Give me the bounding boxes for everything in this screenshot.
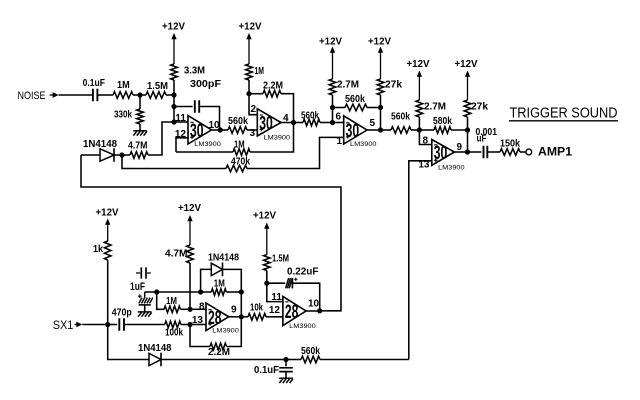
node K junction [378,105,383,110]
wire node C to node D [173,107,175,123]
svg-text:580k: 580k [433,116,452,127]
svg-text:12: 12 [269,305,281,316]
op-amp U6 LM3900 (28) [283,297,316,330]
svg-text:560k: 560k [301,346,320,357]
svg-text:+12V: +12V [239,22,262,33]
node T2 junction [239,289,244,294]
node N junction [465,127,470,132]
svg-text:+12V: +12V [368,37,391,48]
node I junction (pin 6) [330,120,335,125]
node T junction [198,289,203,294]
node S junction [154,289,159,294]
pin 10 label (U6) [308,299,320,310]
wire U4 pin 13 down to bottom rail [409,161,432,360]
svg-text:6: 6 [335,112,341,123]
svg-text:uF: uF [477,134,487,145]
resistor R 2.7M from +12V (right) [416,100,446,130]
node R (U6 output) [317,308,322,313]
svg-text:LM3900: LM3900 [212,327,239,334]
pin 5 label [370,118,376,129]
node G (U2 output) [291,120,296,125]
node C junction [171,104,176,109]
wire 470k to U3 pin 1 [247,137,344,168]
power +12V (2.7M right) [407,59,430,100]
svg-text:8: 8 [199,301,205,312]
pin 11 label (U6) [271,292,282,303]
wire node U down to 2.2M [190,325,210,347]
resistor R 10k [241,302,283,320]
wire node K to node L [380,108,382,131]
wire node M to pin 8 [419,130,431,145]
svg-text:0.22uF: 0.22uF [287,266,318,277]
svg-text:1k: 1k [93,244,103,255]
svg-text:150k: 150k [500,138,520,149]
diode D2 1N4148 (parallel 1M) [201,252,242,292]
wire node U to pin 13 [190,324,206,326]
wire node V down to diode D3 [108,325,149,360]
svg-text:+12V: +12V [319,37,342,48]
wire 2.2M to U5 output [227,317,242,347]
svg-text:11: 11 [175,113,186,124]
svg-text:LM3900: LM3900 [438,164,465,171]
node D junction (pin 11) [171,119,176,124]
pin 4 label [283,113,289,124]
resistor R 3.3M from +12V [171,64,205,95]
title TRIGGER SOUND [509,105,618,122]
wire U6 output [306,310,320,312]
svg-text:3: 3 [249,128,255,139]
wire node S down to 1M [157,292,164,309]
resistor R 560k (U3 feedback) [333,94,381,111]
svg-text:+12V: +12V [96,208,119,219]
wire 1M feedback to node G [250,123,294,153]
resistor R 2.2M (U2 feedback) [249,81,294,123]
capacitor C 1uF (polarized to ground) [130,281,157,312]
resistor R 580k (node M to node N) [419,116,467,134]
resistor R 27k from +12V [377,79,402,108]
pin 10 label [209,120,221,131]
resistor R 330k to ground [114,95,143,131]
power +12V (1k) [96,208,119,242]
resistor R 1M (noise input) [105,80,140,98]
wire node H to pin 2 [249,94,257,115]
input arrow SX1 [75,322,83,328]
svg-text:560k: 560k [301,110,319,121]
svg-text:3.3M: 3.3M [184,66,205,77]
svg-text:LM3900: LM3900 [194,141,221,148]
svg-text:1M: 1M [117,80,130,91]
svg-text:9: 9 [231,305,237,316]
op-amp U2 LM3900 (30) [257,109,290,142]
op-amp U1 LM3900 (30) [188,116,221,148]
capacitor C 0.1uF (bottom to ground) [254,360,293,378]
power +12V (4.7M lower) [178,203,201,245]
wire pin 12 to 1M feedback [176,151,233,153]
svg-text:300pF: 300pF [190,79,221,90]
pin 8 label (U5) [199,301,205,312]
svg-text:0.1uF: 0.1uF [83,78,105,89]
ground (1uF) [138,312,152,317]
power +12V (27k left) [368,37,391,80]
node SX1 (input label) [53,318,74,332]
power +12V (1.5M lower) [253,211,276,255]
wire pin 12 stub down [176,138,188,152]
svg-text:100k: 100k [165,327,183,338]
node H junction [246,91,251,96]
resistor R 4.7M from +12V (lower) [165,245,193,309]
diode D3 1N4148 (bottom) [138,343,286,366]
capacitor C1 0.1uF [59,78,105,101]
pin 13 label (U5) [192,315,204,326]
capacitor C 0.22uF (U6 feedback) [267,266,320,311]
node NOISE (input label) [18,90,46,102]
svg-text:1.5M: 1.5M [272,254,289,265]
svg-text:560k: 560k [391,111,410,122]
svg-text:0.1uF: 0.1uF [254,365,279,376]
node AMP1 (output label) [538,145,572,159]
resistor R 4.7M (from diode) [122,141,148,159]
resistor R 1k from +12V [93,241,111,325]
node A junction [137,92,142,97]
op-amp U5 LM3900 (28) [206,303,239,334]
wire U3 output [367,129,381,131]
svg-text:+12V: +12V [407,59,430,70]
wire node I to pin 6 [333,122,344,124]
wire U4 output [454,151,467,153]
resistor R 2.7M from +12V [329,79,359,108]
resistor R 560k (U2 out to node I) [294,110,333,126]
svg-text:+12V: +12V [253,211,276,222]
svg-text:2.7M: 2.7M [424,102,446,113]
svg-text:28: 28 [285,302,299,323]
node Q junction [264,281,269,286]
node M junction [417,127,422,132]
power +12V (2.7M left) [319,37,342,80]
pin 6 label [335,112,341,123]
op-amp U3 LM3900 (30) [344,116,377,148]
svg-text:2.7M: 2.7M [337,80,359,91]
resistor R 1M (to pin 8) [164,296,190,313]
capacitor C 0.001uF [468,127,501,158]
wire node F down to 470k [122,155,226,169]
wire pin 11 stub [174,121,188,123]
pin 1 label [336,136,342,147]
svg-text:LM3900: LM3900 [350,141,377,148]
svg-text:5: 5 [370,118,376,129]
resistor R 560k (bottom) [286,346,409,363]
node J junction [330,105,335,110]
svg-text:AMP1: AMP1 [538,145,572,159]
node L (U3 output) [378,127,383,132]
svg-text:1N4148: 1N4148 [138,343,172,354]
svg-text:2.2M: 2.2M [263,81,283,92]
svg-text:1M: 1M [255,66,265,77]
svg-text:SX1: SX1 [53,318,74,332]
pin 9 label [457,142,463,153]
wire D1 anode loop from U6 output [81,155,341,311]
input arrow NOISE [50,92,59,98]
svg-text:1M: 1M [234,139,245,150]
svg-text:13: 13 [192,315,204,326]
resistor R 560k (U3 out to node M) [381,111,420,133]
svg-text:8: 8 [422,135,428,146]
node U junction (pin 13) [187,322,192,327]
wire node B to node C [173,95,175,107]
svg-text:27k: 27k [385,80,402,91]
power +12V (1M) [239,22,262,65]
wire pin 11 to node Q [267,283,283,301]
pin 9 label (U5) [231,305,237,316]
diode D1 1N4148 [81,139,122,162]
resistor R 470k (feedback to pin 1) [226,156,250,172]
node P (U5 output) [239,314,244,319]
resistor R 27k from +12V (right) [464,100,488,130]
resistor R 100k [124,321,190,338]
svg-text:560k: 560k [345,94,365,105]
node V junction [105,322,110,327]
capacitor C 470p [108,307,132,330]
pin 3 label [249,128,255,139]
svg-text:10: 10 [308,299,320,310]
svg-text:+12V: +12V [162,22,185,33]
node O (U4 output) [465,149,470,154]
svg-text:2.2M: 2.2M [208,347,230,358]
wire node T to node S [157,291,201,293]
svg-text:TRIGGER SOUND: TRIGGER SOUND [510,105,618,122]
svg-text:27k: 27k [471,102,488,113]
wire node U2d to pin 8 [190,308,206,310]
resistor R 1M from +12V [246,64,264,94]
svg-text:LM3900: LM3900 [289,323,316,330]
wire node I up to node J [332,108,334,123]
svg-text:30: 30 [346,121,360,142]
capacitor symbol (unconnected, above 1uF) [136,267,151,278]
svg-text:330k: 330k [114,110,132,121]
power +12V (3.3M) [162,22,185,65]
pin 12 label [175,129,187,140]
svg-text:10k: 10k [250,302,263,313]
svg-text:470k: 470k [231,156,250,167]
svg-text:1M: 1M [214,278,225,289]
svg-text:1: 1 [336,136,342,147]
node B junction [171,92,176,97]
svg-text:1uF: 1uF [130,281,145,293]
node U2d junction (4.7M) [187,307,192,312]
wire U5 output [229,316,242,318]
svg-text:4.7M: 4.7M [165,249,188,260]
wire U2 output [281,122,294,124]
ground (0.1uF) [279,378,293,383]
node F junction (diode cathode) [119,152,124,157]
pin 11 label [175,113,186,124]
ground (330k) [133,131,147,136]
resistor R 1.5M [140,81,174,98]
svg-text:+12V: +12V [455,59,478,70]
wire node N to node O [467,130,469,152]
svg-text:1.5M: 1.5M [147,81,168,92]
svg-text:560k: 560k [228,116,248,127]
op-amp U4 LM3900 (30) [432,140,465,172]
pin 2 label [250,104,256,115]
resistor R 560k (U1 out to pin 3) [220,116,257,133]
svg-text:30: 30 [259,114,273,135]
resistor R 1M (U1 feedback) [233,139,250,155]
resistor R 1M (parallel with diode D2) [201,278,242,295]
svg-text:4.7M: 4.7M [128,141,148,152]
wire SX1 to node V [82,324,107,326]
svg-text:+12V: +12V [178,203,201,214]
resistor R 1.5M from +12V (lower) [264,254,290,284]
node W junction [283,357,288,362]
resistor R 150k (output) [500,138,526,155]
pin 13 label [418,160,430,171]
wire U1 output [212,129,221,131]
resistor R 2.2M (U5 feedback) [208,343,230,358]
capacitor C 300pF (feedback) [174,79,221,130]
pin 12 label (U6) [269,305,281,316]
svg-text:NOISE: NOISE [18,90,46,102]
wire node D to 4.7M [148,122,174,155]
wire node P up to node T2 [240,292,242,317]
pin 8 label [422,135,428,146]
svg-text:2: 2 [250,104,256,115]
svg-text:1N4148: 1N4148 [83,139,117,150]
power +12V (27k right) [455,59,478,100]
svg-text:1N4148: 1N4148 [208,252,239,263]
svg-text:LM3900: LM3900 [264,135,291,142]
svg-text:1M: 1M [166,296,177,307]
node E (U1 output) [218,127,223,132]
terminal AMP1 (open circle) [526,149,532,155]
svg-text:470p: 470p [112,307,132,318]
